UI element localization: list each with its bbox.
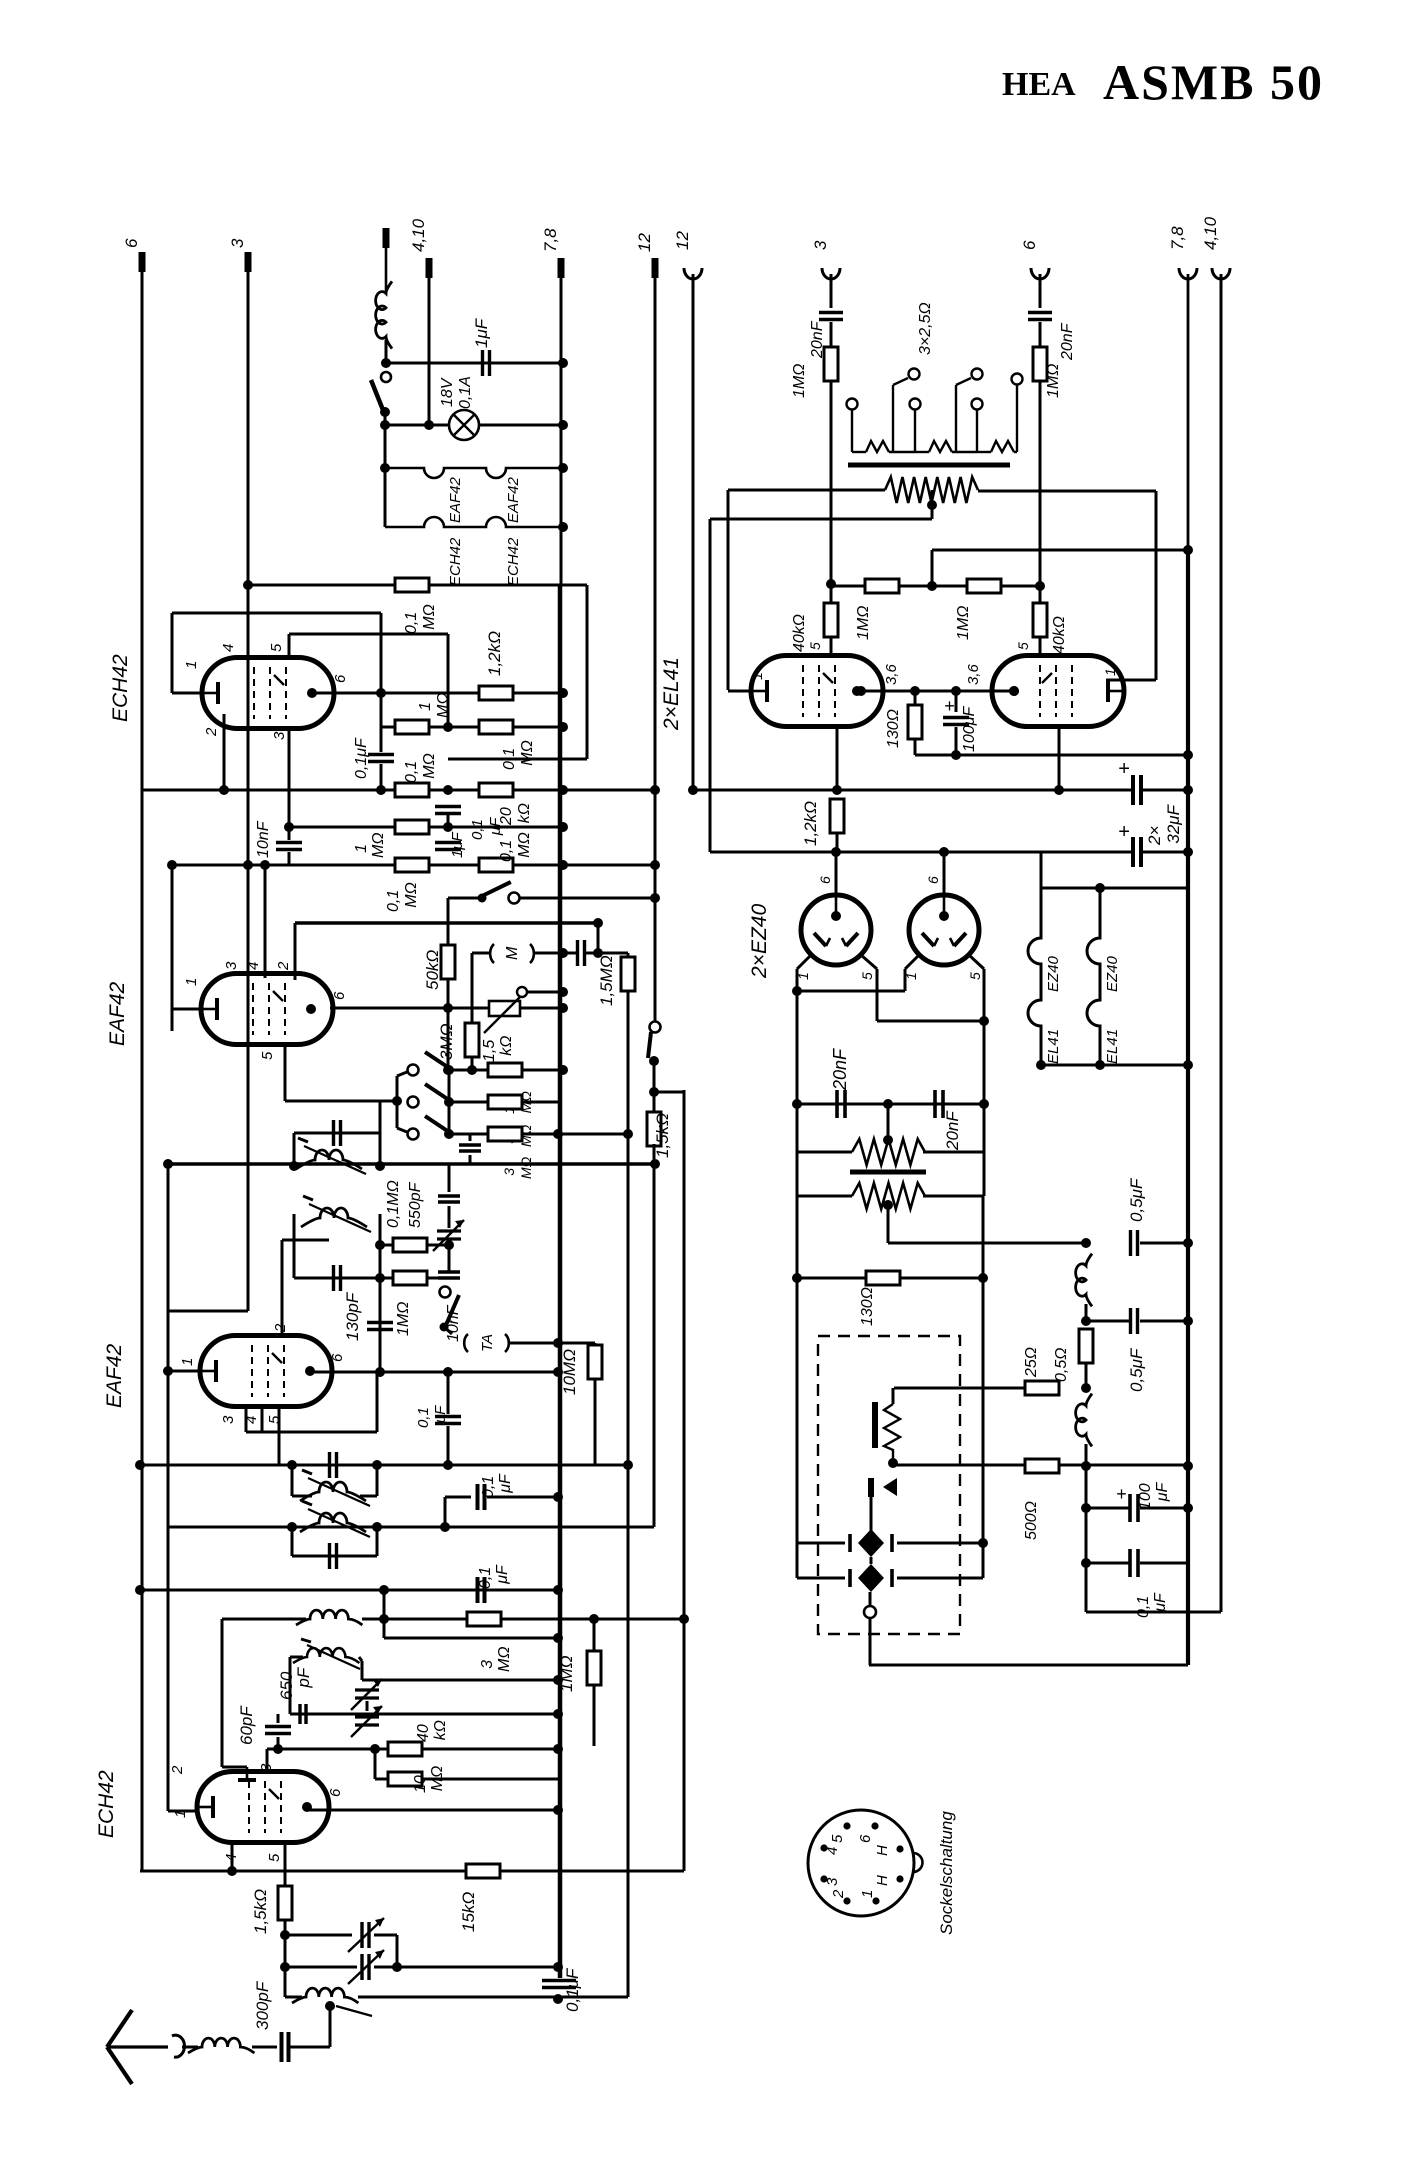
node heater row1 left (380, 463, 390, 473)
svg-text:12: 12 (635, 233, 654, 252)
node if2 bot r (375, 1273, 385, 1283)
svg-text:5: 5 (829, 1834, 846, 1843)
label 550pF (407, 1181, 424, 1228)
wire row 865 (172, 864, 655, 867)
wire if3a rstub (360, 1495, 377, 1498)
svg-text:130Ω: 130Ω (885, 709, 902, 748)
label 0,5uF a (1127, 1177, 1146, 1222)
wire pot wiper (522, 991, 563, 994)
node anode junction (376, 688, 386, 698)
capacitor 100uF (943, 718, 969, 725)
node row1749 b (370, 1744, 380, 1754)
svg-text:1: 1 (749, 672, 765, 680)
label 300pF (253, 1980, 272, 2030)
wire coilE left (285, 1996, 302, 1999)
node bus x row827 (558, 822, 568, 832)
wire coilC right (362, 1618, 384, 1621)
pin1 eaf1 (179, 1358, 196, 1366)
svg-text:+: + (1116, 1484, 1127, 1504)
wire trim col b (448, 1206, 451, 1228)
svg-text:1: 1 (179, 1358, 196, 1366)
wire 1,2k to row852 (836, 833, 839, 852)
wire ez1 pin5 a (861, 955, 877, 969)
label 1MOhm if (395, 1302, 412, 1336)
socket pin 3 (820, 1875, 827, 1882)
row 1466 (894, 1464, 1188, 1467)
node bus3 row585 (243, 580, 253, 590)
wire 0,5a out (1140, 1242, 1188, 1245)
node choke top (1081, 1238, 1091, 1248)
svg-text:1,2kΩ: 1,2kΩ (485, 631, 504, 676)
tube EL41 first (751, 656, 883, 727)
capacitor row953 (578, 940, 585, 966)
node HT row1508 (1183, 1503, 1193, 1513)
label heater EZ40 a (1045, 955, 1062, 992)
wire coilD left drop (289, 1657, 292, 1714)
wire screen loop up (288, 634, 291, 658)
svg-text:0,1μF: 0,1μF (353, 737, 370, 779)
label 500Ohm (1023, 1501, 1040, 1540)
wire ez2 pin1 a (905, 955, 919, 969)
terminal 7,8b label (1168, 226, 1187, 250)
svg-text:3MΩ: 3MΩ (501, 1156, 534, 1179)
svg-text:ASMB 50: ASMB 50 (1103, 54, 1324, 110)
wire if2 bottom (294, 1277, 380, 1280)
resistor 1,5kOhm osc (278, 1886, 292, 1920)
wire eaf1 pin5 (278, 1407, 281, 1465)
resistor 10MOhm v (588, 1345, 602, 1379)
svg-text:3,6: 3,6 (965, 663, 982, 685)
node diamond a right (978, 1538, 988, 1548)
heater chain EL41 EZ40 left (1028, 888, 1041, 1065)
label 100uF psu (1137, 1482, 1171, 1510)
svg-text:2×EL41: 2×EL41 (660, 657, 683, 731)
wire cap01 out (1140, 1562, 1188, 1565)
terminal 3 label (228, 238, 247, 248)
label 40kOhm right (1051, 616, 1068, 654)
row 1590 (140, 1589, 558, 1592)
resistor 40kOhm osc (388, 1742, 422, 1756)
resistor 1MOhm row727 (395, 720, 429, 734)
ant coil E arrow (336, 2006, 372, 2016)
label heater EZ40 b (1104, 955, 1121, 992)
svg-text:130Ω: 130Ω (859, 1287, 876, 1326)
wire anttrim right b (374, 1966, 556, 1969)
row 1508 (1086, 1507, 1131, 1510)
wire det2 join2 (447, 1426, 450, 1465)
node row1465 a (287, 1460, 297, 1470)
terminal 12b label (673, 231, 692, 250)
label 0,5uF b (1127, 1347, 1146, 1392)
resistor 130Ohm out (908, 705, 922, 739)
node row1104 l (792, 1099, 802, 1109)
wire loop587 down (586, 585, 589, 759)
node row1563 l (1081, 1558, 1091, 1568)
pin1 ez2 (903, 972, 919, 980)
wire choke a out (1085, 1304, 1088, 1321)
wire 1,5M feed (597, 923, 600, 953)
pin2 ech2 (169, 1765, 186, 1775)
wire ez2 pin5 a (969, 955, 984, 969)
switch band c (408, 1116, 450, 1140)
capacitor if2 (334, 1265, 341, 1291)
svg-text:3×2,5Ω: 3×2,5Ω (917, 302, 934, 355)
wire eaf1 pin34 up (376, 1372, 379, 1432)
svg-text:7,8: 7,8 (1168, 226, 1187, 250)
svg-text:20nF: 20nF (943, 1110, 962, 1151)
wire row 1278 (380, 1277, 449, 1280)
label 100uF psu plus (1116, 1484, 1127, 1504)
resistor 1MOhm row827 (395, 820, 429, 834)
svg-text:6: 6 (1020, 240, 1039, 250)
row 888 heater top (1041, 887, 1188, 890)
node row827 mid (443, 822, 453, 832)
label 1MOhm couple a (855, 606, 872, 640)
wire x655 to x684 (654, 1091, 684, 1094)
node sw c (444, 1129, 454, 1139)
wire bus 7,8 upper (560, 274, 563, 584)
node row1104 r (979, 1099, 989, 1109)
node bus x row790 (558, 785, 568, 795)
trimmer capacitor 550pF (433, 1220, 464, 1251)
transformer secondary winding a (852, 441, 915, 452)
svg-text:0,1μF: 0,1μF (563, 1967, 582, 2012)
wire anode link (857, 690, 1014, 693)
resistor 15kOhm (466, 1864, 500, 1878)
wire bus 12 (654, 274, 657, 1021)
label 0,1MOhm b row865 (498, 832, 533, 862)
wire bus 12 lower (653, 1144, 656, 1527)
node row1070 a (443, 1065, 453, 1075)
lamp 18V 0,1A (449, 410, 479, 440)
switch TA 10nF (440, 1287, 460, 1332)
svg-text:+: + (944, 696, 955, 716)
capacitor 550pF b (438, 1272, 460, 1278)
pin6 eaf2 (331, 991, 348, 1000)
svg-text:1,5kΩ: 1,5kΩ (251, 1889, 270, 1934)
svg-text:1,5kΩ: 1,5kΩ (653, 1113, 672, 1158)
wire if1 right (379, 1102, 382, 1166)
resistor 10MOhm osc (388, 1772, 422, 1786)
svg-text:5: 5 (859, 972, 875, 980)
node agc x eaf1 (163, 1366, 173, 1376)
resistor 500Ohm (1025, 1459, 1059, 1473)
label 1MOhm osc (557, 1655, 576, 1692)
wire ez1 pin1 b (796, 969, 799, 991)
socket circle Sockelschaltung (808, 1810, 923, 1916)
wire 60pF col2 (277, 1737, 280, 1749)
svg-text:10nF: 10nF (255, 820, 272, 858)
wire ez out drop (983, 1021, 986, 1104)
wire choke b out (1085, 1444, 1088, 1466)
resistor 0,5Ohm (1079, 1329, 1093, 1363)
wire pin2 drop (223, 714, 226, 790)
node row865 right (650, 860, 660, 870)
svg-text:2: 2 (169, 1765, 186, 1775)
wire row 827 (289, 826, 563, 829)
pin3 ech2 (258, 1763, 275, 1772)
tube ECH42 first (202, 658, 334, 729)
wire 100uF to row (955, 727, 958, 755)
terminal 7,8 tick (558, 258, 565, 278)
pin 5 label (268, 643, 285, 652)
row 1997 (358, 1996, 628, 1999)
wire diamond b right (897, 1577, 983, 1580)
wire if3b left (291, 1527, 294, 1556)
wire el2 grid drop (1155, 491, 1158, 680)
node row1465 v1 (135, 1460, 145, 1470)
wire switch row right (519, 897, 655, 900)
svg-text:EAF42: EAF42 (447, 476, 464, 523)
node mains switch bottom (380, 407, 390, 417)
node pot right (558, 1003, 568, 1013)
resistor 1MOhm left (824, 347, 838, 381)
wire anttrim row1 (285, 1934, 352, 1937)
pin1 ech2 (172, 1810, 189, 1818)
node x598 row953 (593, 948, 603, 958)
node heater br (1095, 1060, 1105, 1070)
socket pin label H2 (874, 1875, 891, 1886)
wire 10M col (594, 1379, 597, 1465)
node x655 1092 (649, 1087, 659, 1097)
wire grid1 loop up (171, 613, 174, 693)
node x12 row790 (650, 785, 660, 795)
wire centertap drop (931, 490, 934, 519)
choke L1 (376, 281, 392, 348)
wire mains right (923, 1195, 983, 1198)
node row1466 m (1081, 1461, 1091, 1471)
IF transformer coil if3b (300, 1501, 370, 1537)
svg-text:40kΩ: 40kΩ (1051, 616, 1068, 654)
wire ant to coil (182, 2046, 198, 2049)
wire diamond b left (797, 1577, 845, 1580)
jack TA arcs (464, 1334, 509, 1352)
svg-text:H: H (874, 1875, 891, 1886)
capacitor if1 (334, 1120, 341, 1146)
node mains tap (883, 1200, 893, 1210)
node primary centertap (927, 500, 937, 510)
node humpot tap (883, 1135, 893, 1145)
mains transformer winding (852, 1183, 925, 1209)
row 790 right (693, 789, 1131, 792)
svg-text:5: 5 (266, 1853, 283, 1862)
node row1104 m (883, 1099, 893, 1109)
row 1527 (168, 1526, 654, 1529)
wire row 1008 (330, 1007, 489, 1010)
label 0,1uF det2 (415, 1405, 449, 1428)
node bus row1590 (553, 1585, 563, 1595)
label Sockelschaltung (937, 1811, 956, 1935)
label EAF42 first (103, 1343, 126, 1408)
node fieldL 1278 (792, 1273, 802, 1283)
pin6 ez2 (925, 876, 941, 884)
wire eaf2 pin4 up (264, 865, 267, 978)
label 0,1uF psu (1135, 1592, 1169, 1618)
pin6 eaf1 (329, 1353, 346, 1362)
wire x684 col (683, 1090, 686, 1871)
node coilC right (379, 1614, 389, 1624)
wire humpot right v (983, 1104, 986, 1196)
node pin5 join (979, 1016, 989, 1026)
wire cap 10nF drop (469, 1134, 472, 1141)
svg-text:50kΩ: 50kΩ (423, 950, 442, 990)
label 32uF plus b (1118, 821, 1130, 843)
wire pin3 drop (288, 729, 291, 840)
wire bus 12b (692, 274, 695, 790)
heater chain EL41 EZ40 right (1087, 888, 1100, 1065)
wire if3a left (291, 1465, 294, 1496)
capacitor if3 top (330, 1452, 337, 1478)
wire anttrim right a (374, 1934, 397, 1937)
svg-text:6: 6 (817, 876, 833, 884)
wire x594 b (593, 1685, 596, 1746)
node HT row1466 (1183, 1461, 1193, 1471)
switch band a (408, 1052, 450, 1076)
wire 10M osc drop (374, 1749, 377, 1779)
svg-text:2: 2 (275, 961, 292, 971)
wire eaf1 pin34 b (261, 1407, 264, 1432)
svg-text:40kΩ: 40kΩ (791, 614, 808, 652)
title HEA (1002, 66, 1076, 103)
wire el2 grid in (1106, 679, 1156, 682)
wire coilD left (290, 1656, 303, 1659)
wire 0,5b out (1140, 1320, 1188, 1323)
wire row 585 (248, 584, 563, 587)
wire agc bus (167, 1164, 170, 1811)
svg-text:1: 1 (1102, 668, 1118, 676)
svg-text:1,5MΩ: 1,5MΩ (597, 955, 616, 1006)
label 40kOhm osc (415, 1720, 449, 1742)
svg-text:1,5kΩ: 1,5kΩ (481, 1036, 515, 1062)
terminal 12 tick (652, 258, 659, 278)
svg-text:2×32μF: 2×32μF (1145, 803, 1183, 846)
wire row 1134 (449, 1133, 628, 1136)
node heater tr (1095, 883, 1105, 893)
wire jog 1497 (445, 1496, 471, 1499)
label 60pF (237, 1705, 256, 1745)
svg-text:0,1μF: 0,1μF (477, 1564, 511, 1589)
wire 0,5R out (1085, 1363, 1088, 1388)
svg-text:1,2kΩ: 1,2kΩ (801, 801, 820, 846)
label 10nF det (255, 820, 272, 858)
wire row 790 (142, 789, 655, 792)
node grid row mid (927, 581, 937, 591)
wire spk term (869, 1592, 872, 1606)
wire eaf1 pin34 a (245, 1407, 248, 1432)
wire 10M osc row (375, 1778, 389, 1781)
wire grid1 loop down (380, 613, 383, 693)
pin5 ez2 (967, 972, 983, 980)
svg-text:100μF: 100μF (961, 706, 978, 752)
filter choke a (1076, 1254, 1092, 1307)
antenna coil E (292, 1988, 358, 2003)
svg-text:4: 4 (245, 962, 262, 970)
title ASMB 50 (1103, 54, 1324, 110)
wire M left (472, 952, 489, 955)
trimmer capacitor 650pF a (351, 1679, 382, 1710)
node anttrim (392, 1962, 402, 1972)
pin 6 label (332, 674, 349, 683)
wire 50k drop (447, 898, 450, 1008)
wire trim col (448, 1164, 451, 1192)
wire bus 7,8 main (558, 584, 563, 1978)
capacitor 20nF psu a (837, 1090, 845, 1118)
wire grid right d (1039, 637, 1042, 657)
capacitor 32uF a (1133, 775, 1141, 805)
wire coilD right drop (361, 1661, 364, 1680)
wire eaf1 pin2 jog (282, 1239, 329, 1242)
wire ech2 pin1 (168, 1810, 199, 1813)
svg-text:EAF42: EAF42 (106, 981, 129, 1046)
wire grid left d (830, 637, 833, 657)
svg-text:6: 6 (332, 674, 349, 683)
node row1245 r (444, 1240, 454, 1250)
terminal 4,10 tick (426, 258, 433, 278)
node HT row790 (1183, 785, 1193, 795)
label 20nF psu b (943, 1110, 962, 1151)
resistor 3MOhm osc (467, 1612, 501, 1626)
node bus row1749 (553, 1744, 563, 1754)
wire 1,5M drop (627, 953, 630, 959)
svg-text:0,1MΩ: 0,1MΩ (501, 740, 536, 770)
resistor 25Ohm (1025, 1381, 1059, 1395)
row 755 cathode (915, 754, 1188, 757)
wire grid right b (1039, 322, 1042, 348)
socket pin label 2 (830, 1889, 847, 1899)
antenna coil F (188, 2038, 254, 2053)
wire ez2 pin6 (943, 852, 946, 895)
speaker magnet bar (872, 1402, 878, 1448)
wire cap01 drop (1085, 1508, 1088, 1563)
node bus row1999 (553, 1994, 563, 2004)
node HT row852 (1183, 847, 1193, 857)
pin5 el2 (1015, 642, 1031, 650)
capacitor 0,1uF row1590 (478, 1577, 485, 1603)
svg-text:EZ40: EZ40 (1045, 955, 1062, 992)
transformer secondary taps (847, 369, 1023, 453)
label ECH42 first (109, 654, 132, 722)
wire cap100 drop (1085, 1466, 1088, 1508)
svg-text:HEA: HEA (1002, 66, 1076, 103)
capacitor 0,5uF b (1131, 1308, 1138, 1334)
svg-text:0,1MΩ: 0,1MΩ (403, 753, 438, 783)
resistor 20kOhm row790 (479, 783, 513, 797)
wire 10M osc out (421, 1778, 558, 1781)
wire 4,10 lead (428, 274, 431, 425)
node x684 1619 (679, 1614, 689, 1624)
wire switch to row (384, 412, 387, 425)
wire choke top lead (383, 228, 390, 248)
terminal 6b label (1020, 240, 1039, 250)
wire lamp row (385, 424, 449, 427)
label 3MOhm osc (479, 1647, 513, 1673)
wire primary right (978, 490, 1156, 493)
node row1465 b (372, 1460, 382, 1470)
resistor 1,5kOhm det (647, 1112, 661, 1146)
label 10MOhm band (501, 1091, 534, 1114)
tube EZ40 second (909, 895, 979, 965)
node heater row1 right (558, 463, 568, 473)
node row827 left (284, 822, 294, 832)
wire row 759 (448, 758, 587, 761)
svg-text:+: + (1118, 821, 1130, 843)
label 10MOhm osc (412, 1766, 446, 1793)
wire ech2 pin4 (231, 1842, 234, 1871)
pin 1 label (183, 661, 200, 669)
wire centertap row (710, 518, 932, 521)
label 0,1MOhm if (385, 1180, 402, 1228)
svg-text:+: + (1118, 758, 1130, 780)
